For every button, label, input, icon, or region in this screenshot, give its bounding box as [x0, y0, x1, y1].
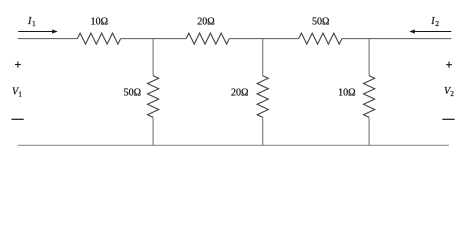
- svg-text:50Ω: 50Ω: [124, 87, 141, 98]
- svg-text:10Ω: 10Ω: [338, 87, 355, 98]
- current arrow I2 (points left): [409, 29, 451, 33]
- resistor R6 10ohm (shunt 3): [364, 76, 375, 118]
- plus sign left port: [15, 61, 21, 67]
- resistor R5 20ohm (shunt 2): [257, 76, 268, 118]
- wire top rail between R1 and R2: [121, 38, 187, 40]
- wire shunt branch 1 bottom: [152, 117, 154, 145]
- minus sign right port: [442, 118, 454, 120]
- wire top rail between R2 and R3: [229, 38, 298, 40]
- wire shunt branch 1 top: [152, 39, 154, 76]
- wire shunt branch 2 top: [262, 39, 264, 76]
- svg-text:20Ω: 20Ω: [231, 87, 248, 98]
- wire top rail left segment: [18, 38, 78, 40]
- resistor R4 50ohm (shunt 1): [148, 76, 159, 118]
- svg-text:I2: I2: [430, 16, 439, 28]
- resistor R2 20ohm (series, top): [186, 33, 229, 44]
- svg-text:10Ω: 10Ω: [91, 16, 108, 27]
- svg-text:V1: V1: [12, 86, 22, 98]
- minus sign left port: [11, 118, 23, 120]
- wire top rail right segment: [342, 38, 451, 40]
- resistor R1 10ohm (series, top): [77, 33, 120, 44]
- svg-text:I1: I1: [27, 16, 36, 28]
- wire bottom rail: [18, 144, 449, 146]
- svg-text:50Ω: 50Ω: [312, 16, 329, 27]
- current arrow I1 (points right): [18, 29, 58, 33]
- svg-text:20Ω: 20Ω: [197, 16, 214, 27]
- wire shunt branch 3 bottom: [368, 117, 370, 145]
- wire shunt branch 3 top: [368, 39, 370, 76]
- wire shunt branch 2 bottom: [262, 117, 264, 145]
- resistor R3 50ohm (series, top): [299, 33, 342, 44]
- svg-text:V2: V2: [444, 86, 454, 98]
- plus sign right port: [446, 62, 452, 68]
